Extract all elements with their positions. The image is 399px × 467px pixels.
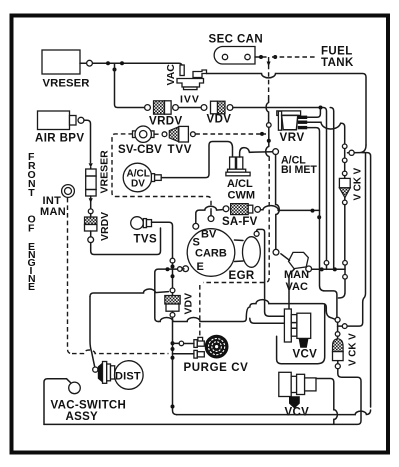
wire VCV2 to bottom tee [316,379,337,425]
dashed hose INT MAN down to bottom [68,198,73,354]
svg-text:EGR: EGR [229,270,255,282]
connector circle VCKV2 top [335,317,340,322]
dashed hose TVV to canister line [195,133,266,135]
wire VRDV2 down and right to TVS [91,228,161,255]
thermal vent valve TVV [168,126,196,156]
port circle E and E wire [183,266,189,272]
wire VRV pin1 top run down to junction [330,108,334,270]
svg-text:SA-FV: SA-FV [222,216,258,228]
wire VCKV2 bottom to VAC-SWITCH loop [44,369,361,425]
junction dots on VRESER wire [106,61,110,65]
wire SEC CAN line solid segment with hop over VDV wire [266,97,268,123]
purge bus continues to bottom corner [173,317,177,414]
svg-text:CARB: CARB [195,248,227,260]
svg-text:SV-CBV: SV-CBV [118,144,162,156]
svg-text:TANK: TANK [321,57,354,69]
port INT MAN [40,185,74,218]
svg-text:VRESER: VRESER [43,78,90,90]
connector circle [170,258,175,263]
wire DIST riser [90,297,95,367]
svg-text:TVS: TVS [134,234,158,246]
vacuum control valve VCV1 [284,309,317,361]
svg-text:VAC-SWITCH: VAC-SWITCH [51,400,127,412]
dashed enclosure left segment [112,134,211,212]
connector circle [87,60,93,66]
air cleaner diverter valve A/CL DV [123,163,161,192]
check valve bus circles [347,153,365,326]
wire SA-FV to right bus with hop over canister and BI MET lines [261,206,320,211]
svg-text:T: T [28,187,35,199]
svg-text:SEC CAN: SEC CAN [209,34,264,46]
wire purge nozzle1 to bus [184,343,194,345]
air bypass valve AIR BPV [35,111,84,145]
svg-text:VDV: VDV [183,293,195,315]
delay valve VDV2 [165,293,195,318]
svg-text:VCV: VCV [293,349,318,361]
delay valve VDV [201,101,233,125]
canister line hop over CWM wire then dashed down to EGR/purge dashed [266,147,269,157]
wire VRDV to VDV [178,107,201,109]
check valve VCKV2 [333,322,359,368]
svg-text:DIST: DIST [115,371,141,383]
svg-text:BI MET: BI MET [281,164,317,176]
svg-text:BV: BV [201,229,217,241]
connector circle [349,150,354,155]
valve IVV [165,64,207,106]
wire AIR BPV to vertical reservoir [84,120,91,162]
vacuum control valve VCV2 [279,372,316,418]
solenoid vent valve SV-CBV [118,126,162,156]
port circle A/CL BI MET [273,149,279,155]
svg-text:VAC: VAC [165,64,177,86]
wire VRESER to IVV [80,63,182,67]
wire MAN VAC to VCV1 riser [289,269,295,309]
svg-text:MAN: MAN [40,206,66,218]
wire A/CL DV to CWM [161,142,232,178]
label FRONT OF ENGINE [28,151,37,293]
svg-text:V CK V: V CK V [353,167,364,200]
dashed hose bottom run to purge area with hop over DIST riser [72,350,169,354]
distributor DIST [98,361,143,390]
svg-text:AIR BPV: AIR BPV [35,133,84,145]
check valve VRDV [145,101,183,128]
wire purge line riser and cross run y 303.6 [158,300,334,322]
svg-text:VDV: VDV [207,114,232,126]
wire IVV to right bus [207,74,367,146]
connector circle VDV bus end [324,261,329,266]
svg-text:V CK V: V CK V [348,333,359,366]
wire check bus down to VCKV2 [338,279,345,298]
port circle BV [208,216,214,222]
wire TVS top port to purge bus [152,222,173,258]
delay valve SA-FV [222,204,261,228]
svg-text:VCV: VCV [285,407,310,419]
svg-text:VRDV: VRDV [149,116,183,128]
svg-text:A/CL: A/CL [227,178,253,190]
wire reservoir to VRDV2 [90,196,92,209]
dashed hose SEC CAN down [268,57,270,97]
svg-text:DV: DV [131,179,145,190]
port circle EGR top [254,231,259,236]
svg-text:PURGE CV: PURGE CV [184,362,249,374]
svg-text:VRDV: VRDV [99,212,111,241]
check valve VRDV2 [85,212,112,243]
wire branch down to VRDV row [115,63,145,107]
manifold vacuum source MAN VAC [281,252,312,293]
wire CWM hump to BI MET port [240,148,273,157]
svg-text:FUEL: FUEL [321,46,353,58]
reservoir VRESER vertical [86,150,111,196]
purge control valve PURGE CV [184,335,249,374]
svg-text:VRV: VRV [280,132,305,144]
wire purge nozzle2 to bus [173,353,194,355]
check valve VCKV1 [339,167,363,204]
svg-text:F: F [28,223,35,235]
svg-text:MAN: MAN [284,269,309,281]
wire VRV pin2 arc to check valve bus [307,122,345,143]
wire VRV pin3 down right bus [307,128,337,317]
purge bus vertical [172,263,174,288]
svg-text:E: E [197,261,204,273]
svg-text:VRESER: VRESER [99,150,111,194]
carburettor CARB [187,229,235,277]
svg-text:E: E [28,281,35,293]
wire SEC CAN junction [255,56,266,58]
EGR valve [229,237,261,282]
reservoir VRESER [42,50,90,90]
port circle S [193,223,199,229]
svg-text:TVV: TVV [168,144,193,156]
wire purge bottom run [177,410,371,415]
canister line continues [268,127,270,146]
vacuum switch assembly VAC-SWITCH ASSY [44,379,126,425]
wire branch down right loop [362,153,371,407]
connector circle on canister line [267,123,272,128]
wire VDV to right, corner down bus [233,108,327,261]
wire branch purge run to VCV1 flange [250,318,285,323]
svg-text:CWM: CWM [228,190,256,202]
air cleaner cold weather modulator A/CL CWM [226,157,255,202]
svg-text:IVV: IVV [180,94,200,106]
connector circle [162,132,167,137]
canister SEC CAN [209,34,264,65]
wire MAN VAC junction run [312,268,345,270]
wire EGR to VCV1 [257,229,285,316]
wire DIST feed from VDV2 circle [90,289,169,297]
connector circle VDV2 top [170,288,175,293]
wire IVV bus curve into junction at y 153 [348,145,367,153]
dashed hose SV-CBV to TVV [154,133,162,135]
wire VCKV1 down to junction [344,205,346,261]
thermal vacuum switch TVS [131,217,157,246]
svg-text:ASSY: ASSY [66,411,99,423]
wire VRV pin1 up to VDV bus [307,108,320,118]
wire VCV1 loop and branch to VCKV2 [277,304,325,363]
connector circle [89,163,93,168]
wire S port to SA-FV with hop over BV riser [196,206,223,223]
wire BI MET down to MAN VAC with hop over SA-FV wire [276,155,280,250]
dashed hose to FUEL TANK [272,56,317,58]
vacuum regulator valve VRV [277,111,307,144]
